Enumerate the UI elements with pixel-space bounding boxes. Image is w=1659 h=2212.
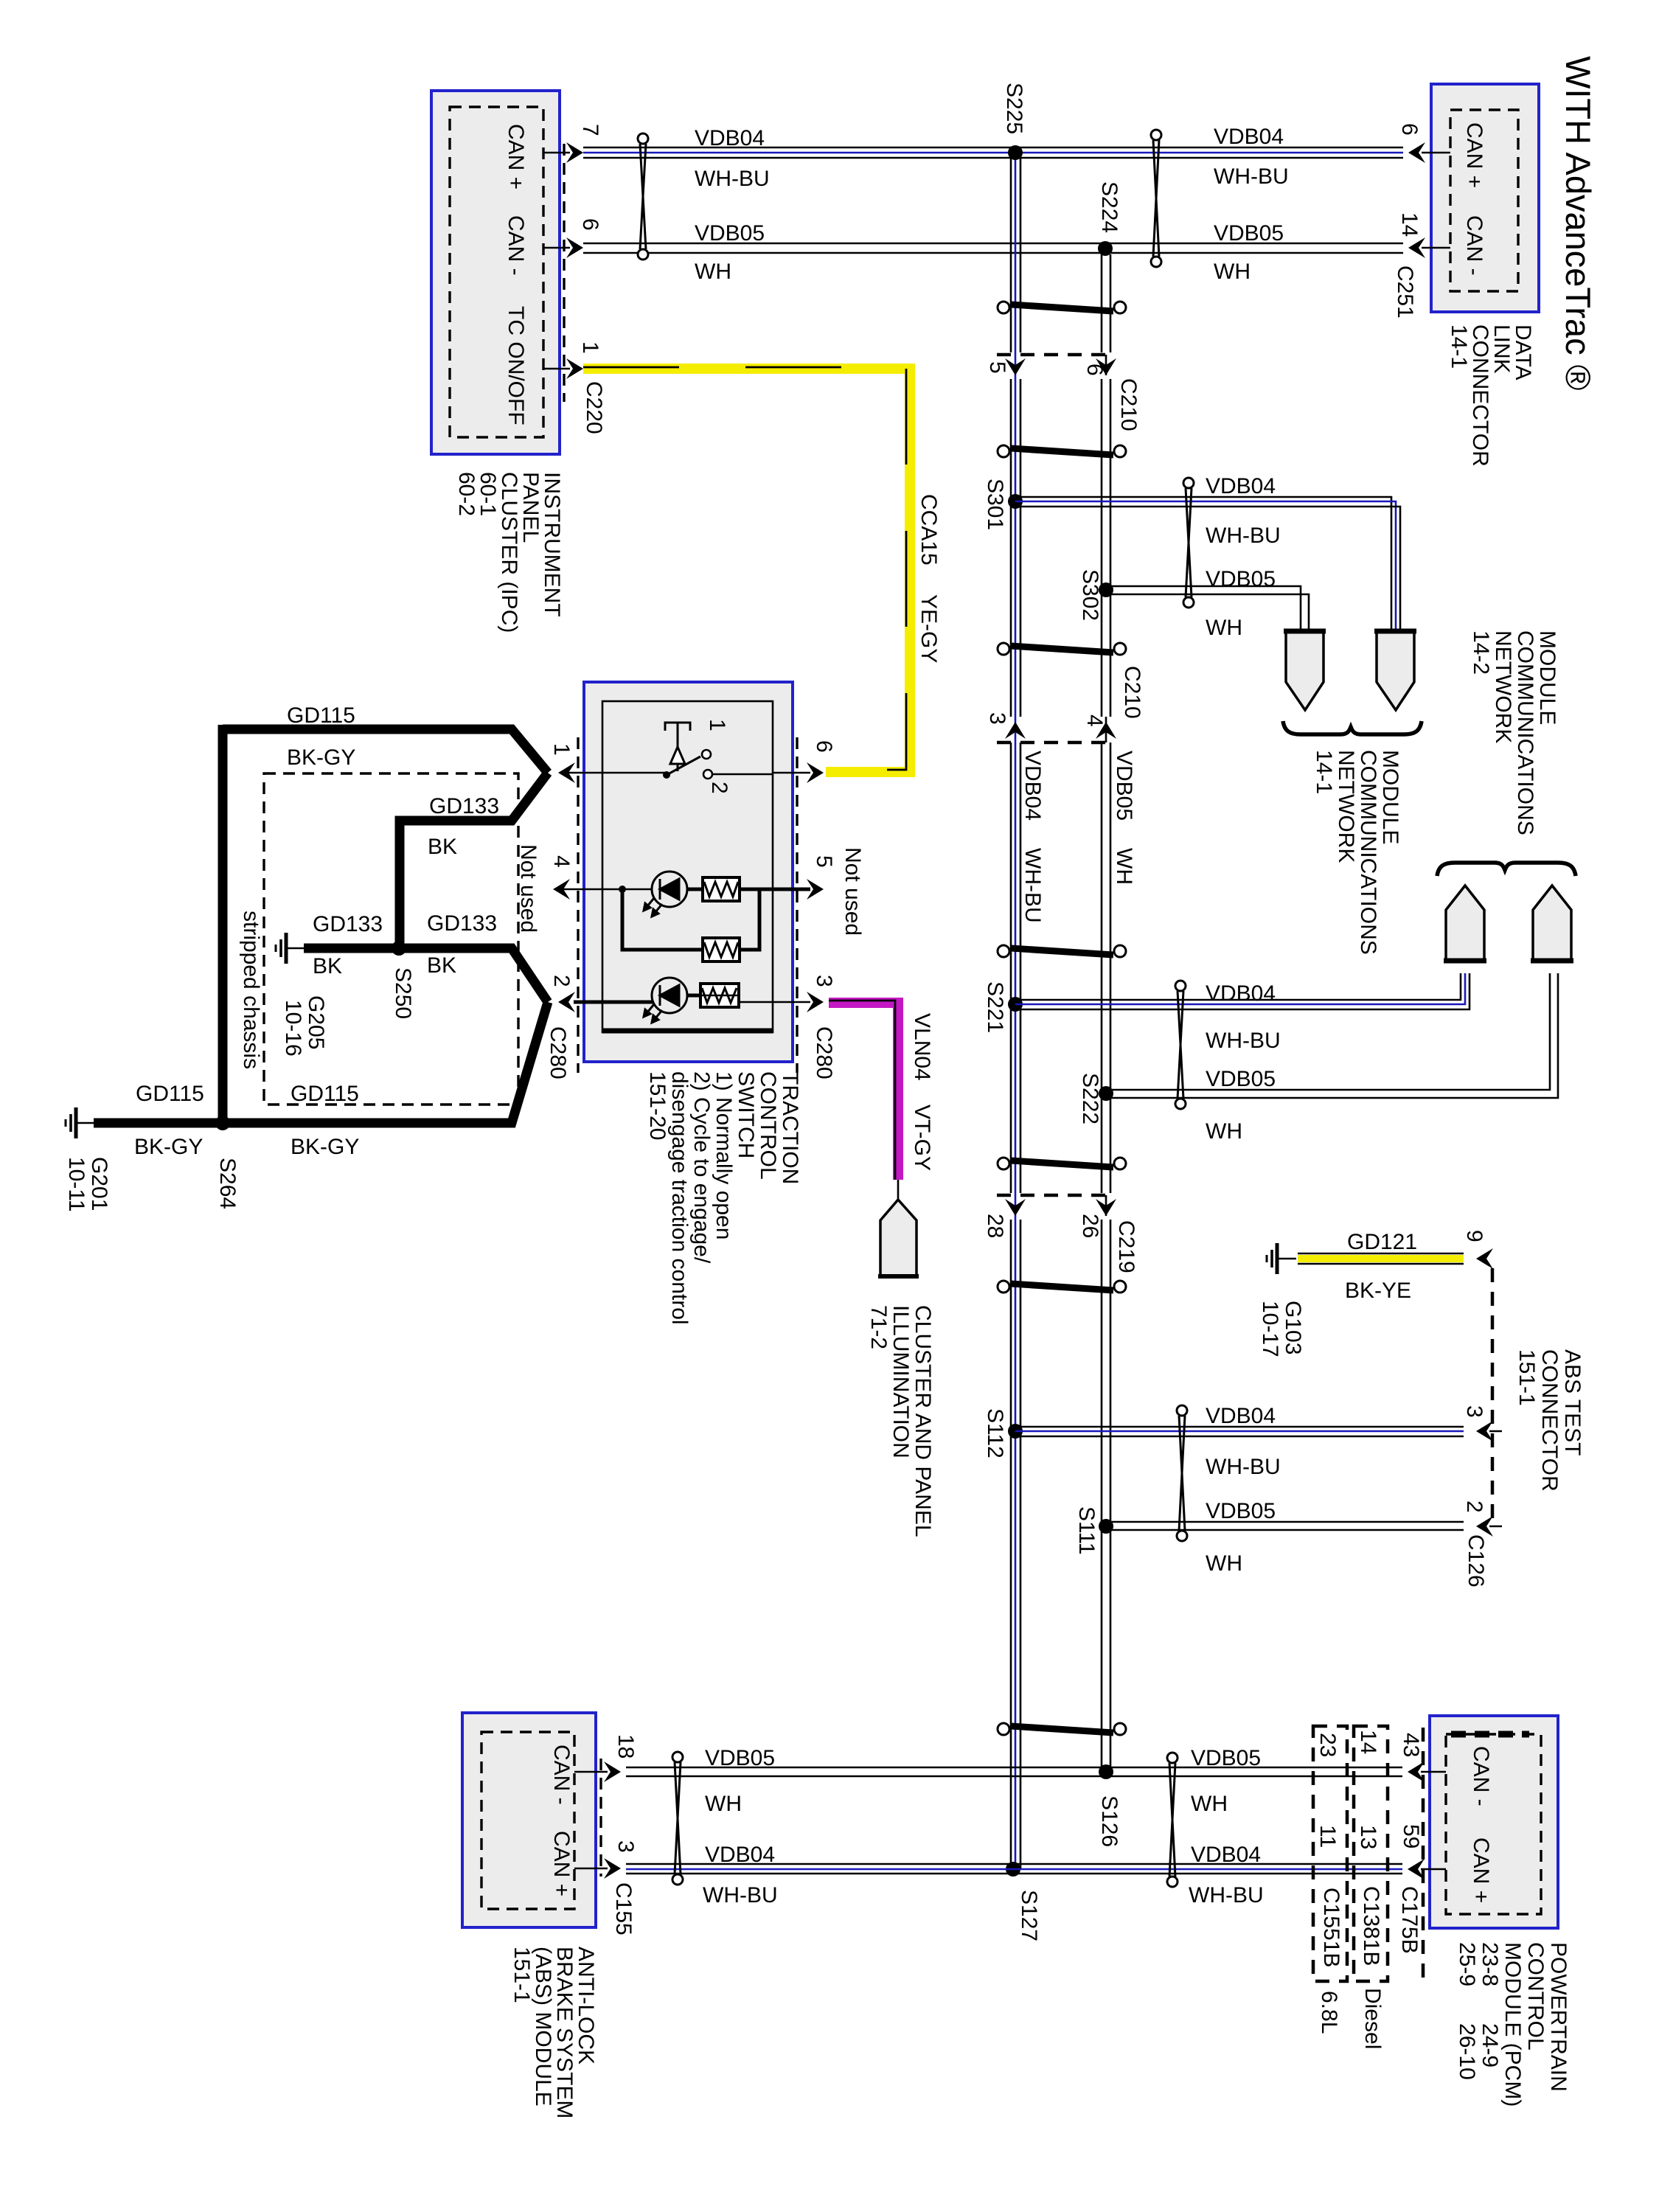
svg-text:WH: WH (1214, 260, 1251, 284)
LED 1 (644, 872, 687, 917)
connector face C220 dashed (563, 144, 565, 402)
svg-text:WH: WH (695, 260, 731, 284)
svg-text:11: 11 (1315, 1825, 1340, 1848)
svg-text:6: 6 (812, 740, 836, 753)
svg-text:WH-BU: WH-BU (703, 1883, 778, 1907)
svg-text:C210: C210 (1120, 666, 1144, 719)
bus twisted link (998, 643, 1126, 655)
svg-text:WH: WH (1191, 1792, 1228, 1816)
off-page flag (VDB04) pointing up (1446, 886, 1484, 961)
svg-text:26: 26 (1078, 1214, 1102, 1238)
bus twisted link (998, 1281, 1126, 1293)
svg-text:VDB05: VDB05 (695, 221, 765, 246)
wire CCA15 YE-GY (583, 369, 910, 772)
ground G201 (66, 1107, 95, 1138)
svg-text:WH-BU: WH-BU (1214, 164, 1289, 189)
svg-text:VDB04: VDB04 (1206, 1404, 1276, 1428)
splice S112 (1008, 1424, 1023, 1439)
svg-text:4: 4 (549, 855, 574, 868)
svg-text:Diesel: Diesel (1360, 1988, 1385, 2049)
svg-text:VDB04: VDB04 (1206, 474, 1276, 498)
svg-text:CAN -: CAN - (1469, 1746, 1493, 1806)
svg-text:C1381B: C1381B (1359, 1886, 1383, 1966)
svg-text:9: 9 (1462, 1230, 1486, 1242)
svg-text:3: 3 (1462, 1405, 1486, 1418)
svg-text:S250: S250 (391, 967, 415, 1019)
wire GD121 BK-YE (1298, 1255, 1464, 1262)
svg-text:VDB05: VDB05 (1206, 567, 1276, 591)
splice S250 (392, 941, 406, 956)
powertrain control module box (1430, 1716, 1558, 1928)
stripped chassis dashed box (264, 773, 518, 1105)
wire VDB05 branch from S302 (1106, 586, 1301, 629)
svg-text:S264: S264 (215, 1158, 240, 1209)
ABS test connector dashed line (1491, 1268, 1495, 1528)
svg-text:14: 14 (1397, 212, 1422, 237)
svg-text:C280: C280 (546, 1026, 570, 1079)
svg-text:GD133: GD133 (427, 911, 497, 936)
svg-text:S126: S126 (1097, 1795, 1121, 1847)
wire VDB04 branch from S301 (1015, 497, 1391, 629)
bus twisted link (998, 945, 1126, 957)
svg-text:BK-GY: BK-GY (287, 745, 355, 770)
svg-text:C175B: C175B (1397, 1886, 1422, 1954)
wire GD115 BK-GY upper run (223, 729, 548, 773)
svg-text:S112: S112 (983, 1408, 1007, 1458)
svg-text:6: 6 (578, 218, 602, 231)
svg-text:G20510-16: G20510-16 (281, 995, 328, 1057)
wire VDB04 branch from S221 (1015, 973, 1461, 1000)
svg-text:WITH AdvanceTrac ®: WITH AdvanceTrac ® (1559, 56, 1598, 390)
connector face C155 dashed (599, 1759, 602, 1877)
off-page flag (VDB04) pointing down (1377, 630, 1414, 710)
wire VDB05 WH (IPC pin6 to DLC pin14) (583, 243, 1403, 245)
svg-text:6: 6 (1082, 364, 1107, 376)
svg-text:S127: S127 (1017, 1890, 1041, 1941)
svg-text:BK-YE: BK-YE (1345, 1279, 1411, 1303)
off-page flag cluster illumination (880, 1200, 917, 1277)
svg-text:Not used: Not used (516, 844, 540, 933)
svg-text:S221: S221 (983, 981, 1007, 1033)
brace above flags (1437, 863, 1576, 876)
svg-text:CAN -: CAN - (1462, 215, 1486, 276)
svg-text:BK: BK (313, 954, 342, 978)
svg-text:13: 13 (1356, 1825, 1380, 1849)
svg-text:3: 3 (812, 975, 836, 987)
off-page flag (VDB05) pointing down (1286, 630, 1324, 710)
svg-text:CAN -: CAN - (549, 1745, 574, 1805)
connector face C280 dashed left (577, 737, 579, 1073)
splice S126 (1099, 1764, 1113, 1779)
svg-text:BK-GY: BK-GY (291, 1135, 359, 1159)
ground G103 (1267, 1243, 1296, 1274)
svg-text:S302: S302 (1078, 569, 1102, 621)
svg-text:1: 1 (705, 719, 729, 731)
ground G205 (276, 933, 305, 964)
parallel resistor branch (622, 889, 703, 950)
svg-text:14: 14 (1356, 1730, 1380, 1754)
svg-text:59: 59 (1399, 1824, 1423, 1848)
connector face C175B dashed (1422, 1728, 1425, 1981)
svg-text:6: 6 (1397, 123, 1422, 136)
svg-text:C1551B: C1551B (1319, 1888, 1343, 1967)
lead to flag (897, 1180, 900, 1200)
svg-text:23: 23 (1315, 1733, 1340, 1757)
splice S221 (1008, 997, 1023, 1012)
svg-text:5: 5 (985, 361, 1009, 374)
svg-text:BK: BK (427, 953, 456, 978)
momentary actuator symbol (665, 723, 690, 771)
svg-text:WH: WH (705, 1792, 742, 1816)
svg-text:1: 1 (578, 341, 602, 354)
svg-text:BK-GY: BK-GY (134, 1135, 203, 1159)
svg-text:C220: C220 (582, 381, 606, 434)
wire VDB04 WH-BU (IPC pin7 to DLC pin6) (583, 147, 1403, 149)
svg-text:7: 7 (578, 124, 602, 136)
splice S264 (215, 1116, 230, 1130)
resistor R2 (703, 938, 740, 961)
svg-text:Not used: Not used (841, 847, 865, 936)
twisted pair loop right (1151, 130, 1161, 267)
bus twisted link (998, 302, 1126, 313)
bus twisted link (998, 1158, 1126, 1169)
svg-text:S224: S224 (1097, 181, 1121, 233)
svg-text:C219: C219 (1114, 1220, 1138, 1273)
traction control switch box (584, 682, 793, 1062)
svg-text:5: 5 (812, 855, 836, 868)
in-line connector C1551B dashed box (1313, 1726, 1347, 1981)
svg-text:S222: S222 (1078, 1073, 1102, 1124)
LED 2 (644, 978, 687, 1023)
splice S302 (1099, 582, 1113, 597)
svg-text:C280: C280 (812, 1026, 836, 1079)
svg-text:43: 43 (1399, 1733, 1423, 1757)
svg-text:VDB05: VDB05 (705, 1746, 775, 1770)
twisted pair loop (1183, 478, 1194, 608)
wire VDB05 WH (ABS pin18 - S126 - PCM pin43) (626, 1767, 1402, 1769)
svg-text:28: 28 (983, 1214, 1007, 1238)
svg-text:CAN +: CAN + (1469, 1837, 1493, 1903)
svg-text:WH-BU: WH-BU (1206, 1455, 1281, 1479)
svg-text:CAN +: CAN + (504, 124, 528, 189)
anti-lock brake system module box (462, 1713, 596, 1927)
bus twisted link (998, 1723, 1126, 1735)
brace (1283, 721, 1422, 734)
svg-text:VDB05: VDB05 (1206, 1067, 1276, 1091)
wire GD115 vertical (218, 725, 228, 1123)
svg-text:C210: C210 (1116, 378, 1141, 431)
svg-text:4: 4 (1082, 714, 1107, 727)
wire GD133 from S250 up to pin 1 (400, 773, 548, 948)
switch contact (663, 771, 670, 779)
svg-text:18: 18 (613, 1734, 638, 1759)
svg-text:GD133: GD133 (313, 912, 383, 936)
svg-text:GD121: GD121 (1347, 1230, 1417, 1254)
wire VDB04 WH-BU (ABS pin3 - S127 - PCM pin59) (626, 1863, 1402, 1865)
wire VLN04 VT-GY (829, 1003, 898, 1180)
data link connector box (1431, 84, 1539, 312)
twisted pair loop ABS side (672, 1752, 683, 1885)
splice S224 (1098, 241, 1113, 256)
svg-text:VT-GY: VT-GY (910, 1105, 934, 1171)
svg-text:WH-BU: WH-BU (1206, 1029, 1281, 1053)
svg-text:C251: C251 (1393, 265, 1417, 319)
svg-text:VDB05: VDB05 (1191, 1746, 1261, 1770)
svg-text:2: 2 (707, 782, 731, 794)
svg-text:BK: BK (428, 835, 457, 859)
svg-text:VDB04: VDB04 (1214, 125, 1284, 149)
wire GD133 from ground through S250 to pin 2 (304, 948, 548, 1002)
bus VDB04 vertical pair (1011, 153, 1020, 1869)
svg-text:1: 1 (549, 743, 574, 756)
twisted pair loop PCM side (1167, 1753, 1178, 1887)
svg-text:GD115: GD115 (291, 1082, 359, 1106)
wire VDB05 branch from S222 (1106, 973, 1550, 1090)
svg-text:WH-BU: WH-BU (1189, 1883, 1264, 1907)
svg-text:3: 3 (985, 712, 1009, 725)
svg-text:2: 2 (549, 975, 574, 987)
resistor R1 (703, 877, 740, 901)
splice S111 (1099, 1519, 1113, 1534)
twisted pair loop (1177, 1405, 1187, 1541)
wire VDB05 branch from S111 (1106, 1521, 1464, 1523)
svg-text:GD115: GD115 (136, 1082, 204, 1106)
svg-text:YE-GY: YE-GY (917, 594, 941, 663)
splice S225 (1008, 145, 1023, 160)
svg-text:C155: C155 (611, 1882, 636, 1935)
wire VDB04 branch from S112 (1015, 1426, 1464, 1428)
svg-text:VDB05: VDB05 (1206, 1499, 1276, 1523)
svg-text:CCA15: CCA15 (917, 494, 941, 566)
instrument panel cluster box (431, 91, 560, 454)
off-page flag (VDB05) pointing up (1533, 886, 1571, 961)
splice S222 (1099, 1086, 1113, 1101)
svg-text:VDB04: VDB04 (1206, 981, 1276, 1006)
svg-text:VDB05: VDB05 (1214, 221, 1284, 246)
resistor R3 (700, 984, 739, 1007)
svg-text:VDB04: VDB04 (1191, 1843, 1261, 1867)
svg-text:WH-BU: WH-BU (1206, 524, 1281, 548)
svg-text:CAN +: CAN + (549, 1831, 574, 1896)
in-line connector C1381B dashed box (1354, 1726, 1388, 1981)
svg-text:VLN04: VLN04 (910, 1013, 934, 1081)
svg-text:CAN +: CAN + (1462, 122, 1486, 188)
svg-text:WH-BU: WH-BU (1020, 848, 1045, 923)
svg-text:3: 3 (613, 1840, 638, 1853)
svg-text:C126: C126 (1464, 1534, 1488, 1587)
svg-text:S225: S225 (1002, 83, 1026, 134)
wire GD115 lower run to pin 2 (94, 1002, 548, 1123)
twisted pair loop (1175, 981, 1186, 1109)
svg-text:S301: S301 (983, 479, 1007, 530)
svg-text:WH: WH (1206, 1551, 1242, 1576)
svg-text:VDB04: VDB04 (705, 1843, 775, 1867)
svg-text:VDB05: VDB05 (1112, 751, 1136, 821)
splice S127 (1006, 1862, 1020, 1877)
svg-text:WH: WH (1112, 848, 1136, 885)
svg-text:TC ON/OFF: TC ON/OFF (504, 306, 528, 425)
splice S301 (1008, 494, 1023, 509)
svg-text:CAN -: CAN - (504, 215, 528, 276)
bus VDB05 vertical pair (1102, 254, 1110, 1772)
twisted pair symbol (638, 133, 648, 260)
svg-text:WH: WH (1206, 1119, 1242, 1144)
svg-text:GD133: GD133 (429, 794, 499, 818)
svg-text:2: 2 (1462, 1500, 1486, 1513)
svg-text:S111: S111 (1074, 1506, 1099, 1555)
svg-text:VDB04: VDB04 (695, 126, 765, 150)
svg-text:G10310-17: G10310-17 (1258, 1301, 1305, 1357)
svg-text:WH: WH (1206, 616, 1242, 640)
junction dot (619, 886, 626, 893)
bus twisted link (998, 445, 1126, 457)
svg-text:VDB04: VDB04 (1020, 751, 1045, 821)
svg-text:stripped chassis: stripped chassis (239, 911, 263, 1069)
svg-text:WH-BU: WH-BU (695, 167, 770, 191)
svg-text:G20110-11: G20110-11 (64, 1157, 111, 1212)
svg-text:GD115: GD115 (287, 703, 355, 728)
svg-text:6.8L: 6.8L (1317, 1991, 1341, 2034)
connector face C280 dashed right (796, 737, 798, 1073)
